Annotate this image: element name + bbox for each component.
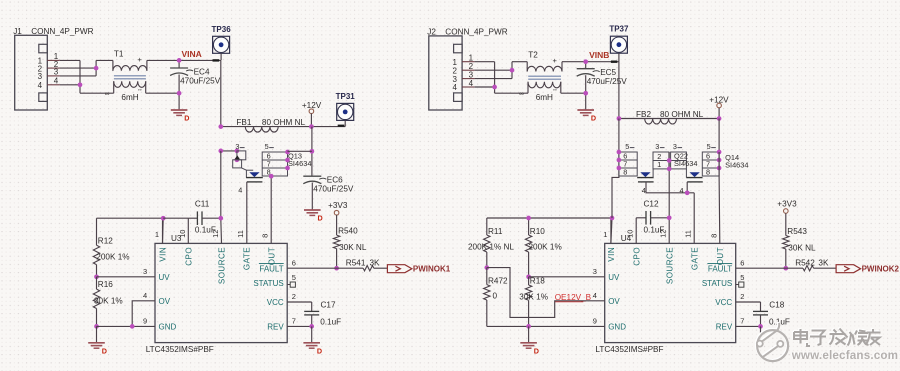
power +12V (channel 1) <box>302 101 322 113</box>
svg-text:200K 1%: 200K 1% <box>529 243 562 252</box>
junction R10/R18/UV <box>526 274 531 279</box>
junction pins 1-4 <box>492 85 497 90</box>
pin 12 SOURCE <box>659 230 675 285</box>
svg-text:www.elecfans.com: www.elecfans.com <box>791 349 899 362</box>
svg-text:VINB: VINB <box>589 50 609 60</box>
ground (divider channel 1) <box>96 326 98 342</box>
resistor R11 200K 1% NL <box>468 218 514 268</box>
pin 10 CPO <box>626 230 642 266</box>
svg-text:0.1uF: 0.1uF <box>320 318 341 327</box>
svg-text:EC4: EC4 <box>194 68 210 77</box>
svg-text:80 OHM NL: 80 OHM NL <box>262 118 306 127</box>
svg-text:∞: ∞ <box>105 90 110 97</box>
wire OV pin down to GND net <box>132 301 155 327</box>
svg-text:30K NL: 30K NL <box>339 243 367 252</box>
svg-text:SI4634: SI4634 <box>725 161 748 170</box>
svg-text:OUT: OUT <box>716 247 725 265</box>
svg-text:SOURCE: SOURCE <box>665 247 674 284</box>
wire VIN top feed (channel 2) <box>487 217 612 219</box>
svg-text:4: 4 <box>593 291 597 300</box>
svg-text:GATE: GATE <box>243 247 252 270</box>
junction C12 source side <box>667 215 672 220</box>
wire VINA rail vertical <box>220 61 222 127</box>
pin 9 GND <box>593 317 626 332</box>
resistor R18 30K 1% <box>519 276 548 326</box>
junction VIN feed ch2 <box>610 216 615 221</box>
connector J1 CONN_4P_PWR <box>13 27 47 110</box>
svg-text:R542: R542 <box>795 259 815 268</box>
svg-text:6: 6 <box>292 258 296 267</box>
svg-text:1: 1 <box>657 160 661 169</box>
svg-text:D: D <box>318 214 323 223</box>
resistor R12 200K 1% <box>93 218 129 277</box>
op-amp controller U3 LTC4352IMS#PBF <box>155 234 287 343</box>
svg-text:5: 5 <box>265 142 269 151</box>
svg-text:7: 7 <box>292 317 296 326</box>
power +3V3 (U4) <box>777 199 797 213</box>
svg-text:11: 11 <box>684 230 693 238</box>
junction +12V rail / Q13 drain wire <box>310 149 315 154</box>
svg-text:5: 5 <box>292 273 296 282</box>
resistor R10 200K 1% <box>525 218 561 277</box>
wire UV to U4 <box>529 276 605 278</box>
ground (EC bulk cap) <box>171 110 190 123</box>
resistor R472 0 <box>484 268 508 327</box>
svg-text:5: 5 <box>740 273 744 282</box>
pin 2 of J2 <box>462 62 475 71</box>
pin 2 VCC <box>715 292 744 307</box>
pin 3 of J2 <box>462 70 475 79</box>
svg-text:470uF/25V: 470uF/25V <box>313 185 354 194</box>
wire pins 1,4 to transformer bottom <box>475 62 528 93</box>
svg-text:4: 4 <box>238 186 242 195</box>
junction Q13 pin2 <box>235 149 240 154</box>
junctions source center <box>667 158 672 163</box>
junction +12V / FB1 <box>309 124 314 129</box>
svg-text:STATUS: STATUS <box>253 279 283 288</box>
junctions Q14 drain rows <box>717 150 722 155</box>
svg-text:3: 3 <box>38 72 43 81</box>
junction FAULT / pull-up <box>334 266 339 271</box>
svg-text:3: 3 <box>54 68 59 77</box>
pin 10 CPO <box>178 230 194 266</box>
test point TP31 <box>336 92 356 121</box>
wire VINB rail down to Q22 drain box <box>618 119 620 177</box>
junction EC bottom / transformer return <box>177 91 182 96</box>
svg-text:3: 3 <box>143 267 147 276</box>
svg-text:R472: R472 <box>488 276 508 285</box>
pin 8 OUT <box>709 234 725 266</box>
svg-text:10: 10 <box>178 230 187 238</box>
svg-text:D: D <box>591 114 596 123</box>
svg-text:5: 5 <box>707 142 711 151</box>
svg-text:TP31: TP31 <box>336 92 356 101</box>
wire VIN pin vertical <box>162 218 164 243</box>
svg-text:R541: R541 <box>346 259 366 268</box>
svg-text:VIN: VIN <box>159 247 168 262</box>
junction FAULT / pull-up <box>783 266 788 271</box>
wire Q13 out (pin 8 row) to U3 OUT <box>270 176 272 243</box>
wire to port <box>814 267 837 269</box>
wire VIN pin vertical <box>610 218 612 244</box>
wire +12V rail down to Q14 drain box <box>718 119 720 153</box>
capacitor C17 0.1uF <box>287 301 341 327</box>
transistor Q13 SI4634 <box>233 142 312 182</box>
capacitor EC5 470uF/25V <box>577 62 628 110</box>
pin 4 OV <box>143 291 171 306</box>
svg-text:D: D <box>184 114 189 123</box>
watermark logo <box>756 322 788 361</box>
svg-text:30K NL: 30K NL <box>788 244 816 253</box>
junction pins 2-3 <box>510 68 515 73</box>
wire tick at TP31 <box>338 125 345 127</box>
svg-text:C18: C18 <box>769 301 784 310</box>
wire FAULT out <box>736 267 803 269</box>
pin 6 FAULT <box>259 258 296 273</box>
svg-text:10: 10 <box>626 230 635 238</box>
junctions Q22 drain rows <box>617 150 622 155</box>
svg-text:+: + <box>137 55 142 64</box>
wire Q22 gate drop <box>646 182 694 193</box>
power +3V3 (U3) <box>328 201 348 215</box>
svg-text:VCC: VCC <box>267 298 284 307</box>
svg-text:3: 3 <box>673 142 677 151</box>
wire VINB rail jog to VIN <box>612 176 619 218</box>
svg-text:SOURCE: SOURCE <box>218 247 227 284</box>
pin 9 GND <box>143 317 176 332</box>
svg-text:T1: T1 <box>114 49 124 58</box>
wire pins 1,4 to transformer bottom <box>60 60 114 93</box>
junction REV / cap <box>309 324 314 329</box>
wire source center vertical <box>668 152 670 243</box>
svg-text:+3V3: +3V3 <box>777 199 797 208</box>
svg-text:CONN_4P_PWR: CONN_4P_PWR <box>445 27 507 36</box>
svg-text:6mH: 6mH <box>536 93 553 102</box>
svg-text:C17: C17 <box>321 301 336 310</box>
svg-text:OUT: OUT <box>267 247 276 265</box>
svg-text:GATE: GATE <box>690 247 699 270</box>
junction C11 source side <box>218 216 223 221</box>
svg-text:1: 1 <box>603 230 607 239</box>
wire +12V rail down <box>311 127 313 177</box>
pin 7 REV <box>267 317 296 332</box>
resistor R540 30K NL <box>333 215 366 268</box>
wire Q13 drain to +12V rail <box>288 150 312 152</box>
svg-text:UV: UV <box>608 273 620 282</box>
junction EC bottom / transformer return <box>583 91 588 96</box>
transformer T1 common-mode choke <box>105 49 147 102</box>
svg-text:R16: R16 <box>98 280 113 289</box>
svg-text:C12: C12 <box>644 199 659 208</box>
capacitor EC4 470uF/25V <box>170 60 221 110</box>
svg-text:3: 3 <box>593 267 597 276</box>
wire tick at VINB end <box>611 61 617 63</box>
svg-text:6: 6 <box>740 258 744 267</box>
pin 3 of J1 <box>47 68 60 77</box>
test point TP37 <box>609 25 629 54</box>
svg-text:9: 9 <box>143 317 147 326</box>
svg-text:4: 4 <box>452 83 457 92</box>
svg-text:CONN_4P_PWR: CONN_4P_PWR <box>31 27 93 36</box>
svg-text:FAULT: FAULT <box>259 264 283 273</box>
watermark chinese text <box>793 328 880 346</box>
junction pins 2-3 <box>94 66 99 71</box>
junction FB1 left <box>218 124 223 129</box>
pin 5 STATUS (no connect) <box>702 273 745 288</box>
wire VIN feed to rail (via C11 path) <box>163 217 188 219</box>
capacitor EC6 470uF/25V <box>303 176 354 210</box>
svg-text:30K 1%: 30K 1% <box>94 296 123 305</box>
svg-text:4: 4 <box>54 77 59 86</box>
pin 5 STATUS (no connect) <box>253 273 296 288</box>
port PWINOK2 <box>836 265 899 274</box>
svg-text:R18: R18 <box>530 276 545 285</box>
power +12V (channel 2) <box>709 95 729 107</box>
ferrite bead FB1 80 OHM NL <box>221 118 345 132</box>
svg-text:8: 8 <box>709 234 718 238</box>
wire tick at VINA end <box>213 59 220 61</box>
svg-text:SI4634: SI4634 <box>288 159 311 168</box>
wire transformer top output <box>147 59 221 61</box>
wire TP31 drop <box>344 120 346 126</box>
pin 1 of J2 <box>462 54 475 63</box>
junction EC top <box>177 58 182 63</box>
svg-text:EC5: EC5 <box>600 68 616 77</box>
junction FB2 / +12V rail <box>717 116 722 121</box>
svg-text:GND: GND <box>159 323 177 332</box>
svg-text:R10: R10 <box>530 227 545 236</box>
wire +12V to FB1 rail <box>310 114 312 127</box>
wire rail down to source/C11 node <box>220 151 222 219</box>
svg-text:4: 4 <box>680 186 684 195</box>
svg-text:0.1uF: 0.1uF <box>644 225 665 234</box>
pin 6 FAULT <box>707 258 744 273</box>
pin 1 VIN <box>155 230 168 262</box>
svg-text:FB2: FB2 <box>636 110 651 119</box>
svg-text:UV: UV <box>159 273 171 282</box>
wire to port <box>374 267 388 269</box>
capacitor C12 0.1uF <box>636 199 669 243</box>
svg-text:470uF/25V: 470uF/25V <box>587 77 628 86</box>
svg-text:OV: OV <box>608 297 620 306</box>
svg-text:OV: OV <box>159 297 171 306</box>
svg-text:+: + <box>553 56 558 65</box>
svg-text:VCC: VCC <box>715 298 732 307</box>
pin 4 of J2 <box>462 79 475 88</box>
svg-text:TP37: TP37 <box>609 25 629 34</box>
capacitor C18 0.1uF <box>736 301 790 327</box>
junction R18 bottom GND <box>526 324 531 329</box>
svg-text:R543: R543 <box>787 227 807 236</box>
svg-text:D: D <box>534 346 539 355</box>
svg-text:5: 5 <box>625 142 629 151</box>
svg-text:2: 2 <box>740 292 744 301</box>
svg-text:CPO: CPO <box>632 247 641 266</box>
wire VINB rail vertical <box>618 62 620 119</box>
svg-text:J1: J1 <box>13 27 22 36</box>
svg-text:FAULT: FAULT <box>708 264 732 273</box>
svg-text:C11: C11 <box>195 200 210 209</box>
svg-text:4: 4 <box>642 186 646 195</box>
resistor R542 3K <box>795 259 829 271</box>
svg-text:8: 8 <box>706 168 710 177</box>
svg-text:30K 1%: 30K 1% <box>519 293 548 302</box>
svg-text:STATUS: STATUS <box>702 279 732 288</box>
wire pins 2,3 to transformer top <box>60 60 113 76</box>
pin 1 of J1 <box>47 52 60 61</box>
svg-text:CPO: CPO <box>185 247 194 266</box>
svg-text:7: 7 <box>740 317 744 326</box>
svg-text:+3V3: +3V3 <box>328 201 348 210</box>
svg-text:GND: GND <box>608 323 626 332</box>
wire GND pin to divider <box>97 325 156 327</box>
wire transformer bottom output <box>146 92 179 94</box>
transformer T2 common-mode choke <box>519 51 562 102</box>
wire VIN top feed (channel 1) <box>97 217 164 219</box>
junction pins 1-4 <box>78 82 83 87</box>
transistor Q14 SI4634 <box>671 142 749 182</box>
svg-text:3K: 3K <box>818 259 829 268</box>
svg-text:FB1: FB1 <box>236 118 251 127</box>
capacitor C11 0.1uF <box>188 200 221 244</box>
svg-text:˚˚: ˚˚ <box>553 89 557 96</box>
junction OV/GND <box>130 324 135 329</box>
svg-text:6mH: 6mH <box>121 93 138 102</box>
pin 8 OUT <box>261 234 277 266</box>
svg-text:3: 3 <box>235 142 239 151</box>
svg-text:11: 11 <box>236 230 245 238</box>
wire REV out <box>736 325 761 327</box>
svg-text:0: 0 <box>493 292 498 301</box>
pin 2 of J1 <box>47 60 60 69</box>
wire Q14 gate drop <box>686 182 688 193</box>
wire rail to Q13 source pins <box>221 150 237 152</box>
junction EC top <box>583 59 588 64</box>
svg-text:4: 4 <box>143 291 147 300</box>
wire UV to U3 <box>97 276 156 278</box>
test point TP36 <box>212 25 232 54</box>
svg-text:8: 8 <box>623 168 627 177</box>
wire pins 2,3 to transformer top <box>475 62 528 79</box>
svg-text:1: 1 <box>155 230 159 239</box>
junction gates <box>685 190 690 195</box>
wire gate net to U4 GATE pin <box>693 193 695 244</box>
ground (C17) <box>311 326 313 342</box>
resistor R541 3K <box>346 259 380 271</box>
svg-text:4: 4 <box>469 79 474 88</box>
svg-text:REV: REV <box>716 323 733 332</box>
svg-text:VIN: VIN <box>607 247 616 262</box>
svg-text:REV: REV <box>267 323 284 332</box>
junction GND net <box>94 324 99 329</box>
junction Q13 out <box>269 174 274 179</box>
svg-text:3: 3 <box>655 142 659 151</box>
svg-text:TP36: TP36 <box>212 25 232 34</box>
svg-text:R12: R12 <box>98 236 113 245</box>
transistor Q22 SI4634 <box>619 142 669 182</box>
svg-text:˚˚: ˚˚ <box>138 89 142 96</box>
wire TP to rail <box>618 53 620 62</box>
svg-text:EC6: EC6 <box>327 176 343 185</box>
wire +12V rail to U4 OUT pin <box>718 152 720 176</box>
svg-text:200K 1% NL: 200K 1% NL <box>468 243 514 252</box>
ground (C18) <box>760 326 762 336</box>
port PWINOK1 <box>387 265 450 274</box>
junctions Q13 drain rows <box>285 150 290 155</box>
svg-text:LTC4352IMS#PBF: LTC4352IMS#PBF <box>146 345 214 354</box>
pin 7 REV <box>716 317 745 332</box>
wire OE12V_B route R11 to OV <box>487 268 605 318</box>
svg-text:D: D <box>102 346 107 355</box>
svg-text:PWINOK2: PWINOK2 <box>862 265 900 274</box>
pin 2 VCC <box>267 292 296 307</box>
connector J2 CONN_4P_PWR <box>427 27 462 110</box>
svg-text:200K 1%: 200K 1% <box>96 253 129 262</box>
wire GND net ch2 <box>487 325 605 327</box>
svg-text:PWINOK1: PWINOK1 <box>413 265 451 274</box>
resistor R543 30K NL <box>783 213 816 268</box>
junction UV divider <box>94 274 99 279</box>
svg-text:LTC4352IMS#PBF: LTC4352IMS#PBF <box>595 345 663 354</box>
ferrite bead FB2 80 OHM NL <box>619 110 719 124</box>
pin 3 UV <box>143 267 170 282</box>
pin 1 VIN <box>603 230 616 262</box>
op-amp controller U4 LTC4352IMS#PBF <box>605 234 736 343</box>
pin 11 GATE <box>684 230 700 270</box>
junction R10 top <box>526 216 531 221</box>
pin 3 UV <box>593 267 620 282</box>
pin 12 SOURCE <box>211 230 227 285</box>
junction VIN feed <box>161 216 166 221</box>
wire TP to rail <box>220 53 222 60</box>
svg-text:R11: R11 <box>488 227 503 236</box>
net label OE12V_B <box>555 293 592 302</box>
resistor R16 30K 1% <box>93 277 122 327</box>
wire transformer top output <box>562 61 619 63</box>
svg-text:470uF/25V: 470uF/25V <box>180 77 221 86</box>
junction FB2 left <box>617 116 622 121</box>
svg-text:9: 9 <box>593 317 597 326</box>
pin 4 of J1 <box>47 77 60 86</box>
svg-text:0.1uF: 0.1uF <box>195 226 216 235</box>
junction REV / cap <box>758 324 763 329</box>
ground (divider channel 2) <box>528 326 530 342</box>
svg-text:D: D <box>317 346 322 355</box>
svg-text:SI4634: SI4634 <box>674 159 697 168</box>
svg-text:∞: ∞ <box>519 90 524 97</box>
svg-text:2: 2 <box>292 292 296 301</box>
wire FAULT out <box>287 267 363 269</box>
wire +12V to FB2 <box>718 108 720 119</box>
wire REV out <box>287 325 312 327</box>
pin 4 OV <box>593 291 621 306</box>
svg-text:J2: J2 <box>427 27 436 36</box>
wire Q13 gate pin 4 <box>238 182 247 244</box>
ground (EC6) <box>304 210 323 223</box>
junction R11 bottom <box>484 265 489 270</box>
wire transformer bottom output <box>561 92 586 94</box>
svg-text:8: 8 <box>261 234 270 238</box>
junction rail/Q13 <box>218 149 223 154</box>
svg-text:R540: R540 <box>338 227 358 236</box>
svg-text:80 OHM NL: 80 OHM NL <box>660 110 704 119</box>
svg-text:VINA: VINA <box>182 49 202 59</box>
svg-text:T2: T2 <box>528 51 538 60</box>
pin 11 GATE <box>236 230 252 270</box>
ground (EC bulk cap) <box>577 110 596 123</box>
svg-text:3K: 3K <box>370 259 381 268</box>
svg-text:4: 4 <box>38 81 43 90</box>
